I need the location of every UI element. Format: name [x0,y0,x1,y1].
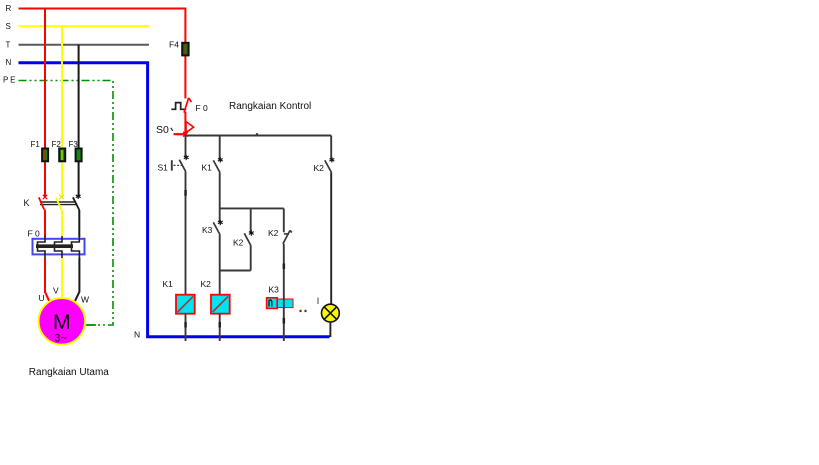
svg-text:U: U [39,293,45,303]
two small dots right of K3 coil [300,310,302,312]
svg-text:K: K [24,198,30,208]
contactor K pole 3 top mark [76,194,81,199]
overload relay F0 heater element phase 1 [38,236,46,258]
contact K1 NO blade [213,160,220,172]
svg-text:K2: K2 [314,163,325,173]
motor M1 3-phase [39,298,86,345]
svg-text:K1: K1 [202,163,213,173]
svg-text:K3: K3 [202,225,213,235]
wire K1-contact branch upper [219,136,221,160]
svg-text:V: V [53,286,59,296]
wire K1 contact to sub branch [219,172,221,208]
svg-text:Rangkaian Utama: Rangkaian Utama [29,367,109,378]
wire phase R vertical to F1 [44,9,46,198]
svg-text:K1: K1 [163,279,174,289]
lamp H1 [322,304,340,322]
wire phase T rail [19,44,150,46]
wire segment marker below K1 coil [184,322,187,328]
contact K3 NO star mark [218,220,223,225]
wire below K3 contact [219,235,221,271]
wire K2 NC to K3 timer coil [283,244,285,299]
overload relay F0 body [33,239,85,255]
wire phase S below contactor [61,210,63,237]
wire sub-branch bottom join [220,270,251,272]
wire PE solid stub at motor [84,324,96,326]
svg-text:3~: 3~ [54,333,67,345]
wire segment marker below K2 coil [219,322,222,328]
contact K2 NO right star mark [330,157,335,162]
wire K2 NO middle branch upper [250,208,252,232]
contact K2 NC blade [283,230,292,243]
svg-text:K2: K2 [233,238,244,248]
wire phase S vertical to F2 [61,26,63,197]
pushbutton S1 plunger [171,160,173,170]
wire PE rail, drop and stub to motor [19,81,114,326]
wire phase T below contactor [78,210,80,237]
pushbutton S0 tick [171,128,173,131]
svg-text:PE: PE [3,76,17,85]
pushbutton S1 blade [179,160,186,172]
svg-text:N: N [6,58,12,67]
wire segment marker on S1 branch [184,190,187,196]
svg-text:K3: K3 [269,285,280,295]
svg-text:l: l [317,296,319,306]
wire through K3 timer body to N [283,298,285,341]
contactor K linkage double line [40,201,76,203]
timer coil K3 body [267,299,293,308]
wire segment marker on K2 NC branch [283,264,286,270]
wire S1 branch to coil K1 [185,172,187,295]
wire lamp to N [329,322,331,337]
wire red between F0 contact and S0 [184,112,186,135]
wire to K2 coil [219,271,221,295]
overload relay F0 heater bar [36,244,73,248]
contact K3 NO blade [213,222,220,234]
wire K2 lamp branch upper [330,136,332,160]
contact K2 NO right blade [325,160,332,172]
contact K2 NO blade [244,233,251,245]
timer coil K3 left box [267,298,278,309]
svg-text:S: S [6,22,11,31]
overload contact F0 blade [184,98,191,113]
pushbutton S0 actuator triangle [186,122,194,133]
wire red stub at S0 [174,133,187,135]
svg-text:F 0: F 0 [28,229,41,239]
svg-text:N: N [134,330,140,340]
fuse F3 [76,149,82,162]
wire below K2 NO contact [250,246,252,271]
wire motor lead W [75,258,80,301]
wire K1 coil to N [185,314,187,341]
svg-text:M: M [53,310,71,334]
wire K2 NC right sub-branch upper [283,208,285,232]
svg-text:F4: F4 [169,40,179,50]
contactor K pole 1 blade [39,197,45,210]
contactor K pole 2 blade [56,197,62,210]
wire phase R rail and drop to control circuit [19,9,186,99]
overload relay F0 heater element phase 2 [55,236,63,258]
fuse F4 [182,43,188,56]
wire sub-branch top horizontal [220,207,284,209]
wire phase S rail [19,25,150,27]
contact K1 NO star mark [218,157,223,162]
svg-text:F1: F1 [31,140,41,149]
svg-text:F 0: F 0 [196,103,209,113]
wire phase R below contactor [44,210,46,237]
contact K2 NC foot bar [284,233,289,235]
contactor K pole 2 top mark [59,195,63,199]
pushbutton S1 link dashed [174,164,182,166]
junction tick on top horizontal [256,133,258,136]
svg-text:S1: S1 [158,163,169,173]
coil K1 [176,295,195,314]
wire above K3 contact [219,208,221,221]
wire segment marker below K3 coil [283,318,286,324]
svg-text:K2: K2 [268,228,279,238]
svg-text:W: W [81,295,89,305]
wire control top horizontal [186,135,332,137]
timer coil K3 squiggle [269,300,272,307]
svg-text:T: T [6,40,11,49]
fuse F2 [59,149,65,162]
wire S1 branch upper [185,136,187,159]
wire K2 contact to lamp [330,172,332,304]
wire motor lead V [61,258,63,298]
svg-text:S0: S0 [156,124,169,136]
svg-text:R: R [6,4,12,13]
junction at S0 output [183,132,188,137]
wire motor lead U [45,258,49,301]
overload contact F0 thermal glyph [171,103,186,110]
contactor K pole 3 blade [73,197,79,210]
wire K2 coil to N [219,314,221,341]
svg-text:Rangkaian Kontrol: Rangkaian Kontrol [229,101,311,112]
svg-text:K2: K2 [201,279,212,289]
contact K2 NO star mark [249,230,254,235]
contactor K pole 1 top mark [43,195,47,199]
pushbutton S1 star mark [184,155,189,160]
wire phase T vertical to F3 [78,45,80,197]
wire neutral N rail, drop and bottom run [19,63,330,337]
fuse F1 [42,149,48,162]
overload relay F0 heater element phase 3 [72,236,80,258]
coil K2 [211,295,230,314]
